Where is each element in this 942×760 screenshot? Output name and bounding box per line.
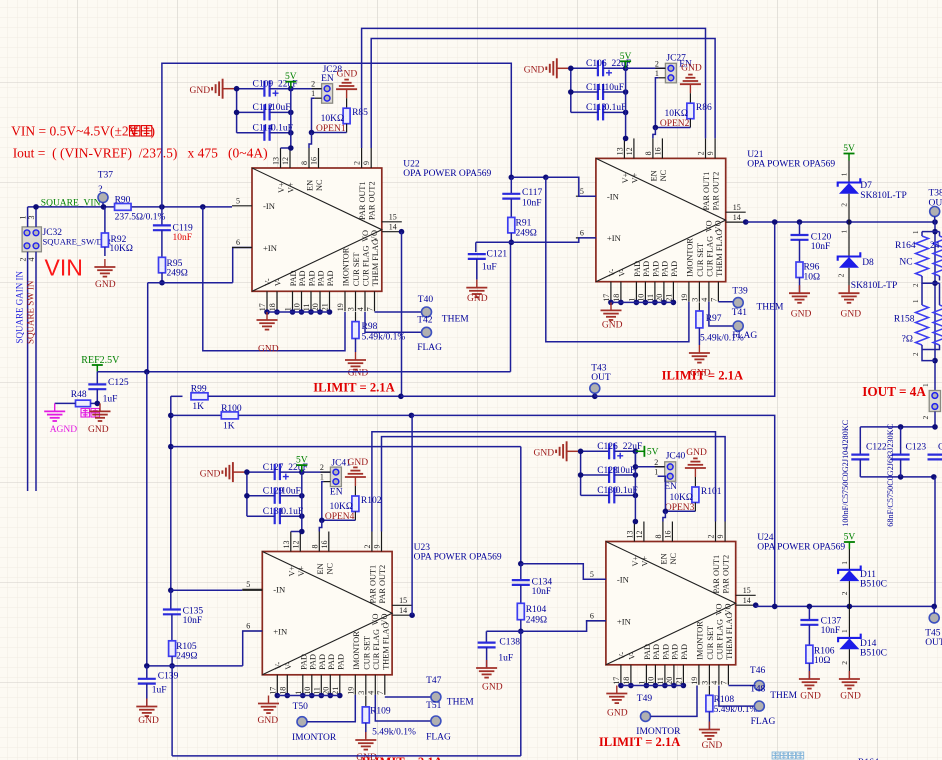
svg-text:CUR FLAG: CUR FLAG [372,629,381,670]
svg-text:15: 15 [733,203,741,212]
annotation shortjump [81,409,90,418]
svg-text:4: 4 [27,258,36,262]
svg-text:237.5Ω/0.1%: 237.5Ω/0.1% [115,213,166,223]
resistor R48 [55,390,100,407]
ground below U23 pads [258,696,280,727]
svg-text:-IN: -IN [607,191,620,201]
svg-text:C134: C134 [532,578,553,588]
svg-text:R109: R109 [370,707,391,717]
svg-text:OPA POWER OPA569: OPA POWER OPA569 [414,553,502,563]
svg-text:14: 14 [389,223,397,232]
svg-text:1uF: 1uF [482,263,497,273]
svg-text:V+: V+ [277,182,286,193]
designator U21 [747,150,835,170]
svg-text:-IN: -IN [617,575,630,585]
OPEN3 label [665,503,695,513]
test point T45 OUT [925,606,942,648]
svg-text:OUT: OUT [925,638,942,648]
svg-text:R100: R100 [221,404,242,414]
svg-text:2: 2 [320,463,324,472]
svg-text:+IN: +IN [273,626,288,636]
svg-text:GND: GND [524,66,545,76]
svg-text:R158: R158 [894,315,915,325]
ground below R106 [799,671,821,702]
test point T38 OUT [929,189,942,223]
svg-text:2: 2 [837,273,846,277]
svg-text:IMONTOR: IMONTOR [342,247,351,286]
svg-text:R105: R105 [176,642,197,652]
svg-text:5V: 5V [620,52,632,62]
svg-text:T46: T46 [750,666,766,676]
svg-text:8: 8 [310,545,319,549]
svg-text:U21: U21 [747,150,764,160]
svg-text:NC: NC [899,258,912,268]
op-amp U23 OPA POWER OPA569 [242,532,412,695]
svg-text:VO: VO [361,230,370,242]
resistor R108 5.49k [706,686,758,716]
svg-text:19: 19 [690,677,699,685]
test point T39 THEM [718,287,784,313]
svg-text:PAR OUT1: PAR OUT1 [712,555,721,594]
svg-text:GND: GND [791,310,812,320]
REF2.5V rail [97,242,510,666]
svg-text:IOUT = 4A: IOUT = 4A [862,384,926,399]
wire EN net [653,78,691,139]
svg-text:T49: T49 [637,694,653,704]
connector JC27 [665,53,686,83]
svg-text:12: 12 [281,157,290,165]
svg-text:GND: GND [841,310,862,320]
svg-text:7: 7 [366,307,375,311]
svg-text:V-: V- [274,278,283,286]
svg-text:V+: V+ [630,172,639,183]
svg-text:SK810L-TP: SK810L-TP [851,281,897,291]
svg-text:?Ω: ?Ω [902,335,913,345]
svg-text:R104: R104 [526,605,547,615]
wire [571,67,598,69]
svg-text:1: 1 [320,473,324,482]
svg-text:-IN: -IN [273,585,286,595]
svg-text:THEM: THEM [757,303,784,313]
U22 pin2/9 bus to U21 [362,28,715,148]
svg-text:GND: GND [337,70,358,80]
svg-text:ILIMIT = 2.1A: ILIMIT = 2.1A [662,369,743,383]
op-amp U21 OPA POWER OPA569 [576,138,746,301]
svg-text:8: 8 [300,161,309,165]
svg-text:8: 8 [654,535,663,539]
diode D7 SK810L-TP [838,161,907,223]
U21 output rail [743,219,938,225]
wire up to U21 bus [162,63,511,207]
resistor R92 10K [101,207,133,256]
pin 2 [626,59,666,68]
svg-text:R96: R96 [804,263,820,273]
svg-text:2: 2 [353,161,362,165]
AGND ground [44,403,77,435]
svg-text:2: 2 [840,591,849,595]
wire -IN U22 to pin5 [200,204,345,351]
resistor R99 1K [171,384,401,412]
wire [270,88,291,90]
diode D8 SK810L-TP [837,222,898,293]
svg-text:PAD: PAD [299,654,308,670]
svg-text:1: 1 [840,172,849,176]
svg-text:NC: NC [325,563,334,575]
connector JC40 [665,452,686,482]
svg-text:C139: C139 [158,672,179,682]
svg-text:GND: GND [348,369,369,379]
svg-text:FLAG: FLAG [732,331,757,341]
svg-text:R48: R48 [71,390,87,400]
svg-text:PAR OUT2: PAR OUT2 [368,181,377,220]
resistor R105 249 [169,614,198,666]
resistor R97 5.49k [696,302,744,343]
svg-text:5V: 5V [843,144,855,154]
svg-text:7: 7 [376,691,385,695]
svg-text:12: 12 [291,541,300,549]
svg-text:B510C: B510C [860,580,887,590]
svg-text:THEM FLAG: THEM FLAG [715,229,724,276]
wire [603,91,626,93]
EN label [321,74,334,84]
wire [922,350,935,361]
pin 2 [302,463,331,472]
svg-text:V+: V+ [287,182,296,193]
svg-text:THEM FLAG: THEM FLAG [381,623,390,670]
svg-text:2: 2 [363,545,372,549]
svg-text:T39: T39 [732,287,748,297]
svg-text:GND: GND [88,425,109,435]
svg-text:GND: GND [681,64,702,74]
test point IMONTOR U23 [292,695,355,743]
power GND port (earth) left of C106 [524,58,571,78]
svg-text:T40: T40 [418,295,434,305]
designator U22 [403,160,491,180]
svg-text:PAD: PAD [289,270,298,286]
connector JC32 [22,227,111,252]
annotation VIN range [11,124,155,139]
svg-text:U23: U23 [414,543,431,553]
power GND port (earth) left of C126 [534,441,581,461]
svg-text:NC: NC [315,179,324,191]
wire [280,515,302,517]
svg-text:5: 5 [246,580,250,589]
svg-text:CUR FLAG: CUR FLAG [715,619,724,660]
svg-text:2: 2 [840,203,849,207]
svg-text:10KΩ: 10KΩ [321,114,344,124]
resistor R104 249 [517,585,547,631]
svg-text:PAD: PAD [660,261,669,277]
svg-text:C119: C119 [173,223,193,233]
capacitor C137 10nF [800,606,841,636]
svg-text:7: 7 [719,681,728,685]
svg-text:GND: GND [138,716,159,726]
svg-text:V-: V- [607,268,616,276]
svg-text:1: 1 [921,383,930,387]
svg-text:9: 9 [362,161,371,165]
svg-text:16: 16 [663,531,672,539]
bottom REF rail [172,755,521,757]
svg-text:SK810L-TP: SK810L-TP [860,191,906,201]
power port 5V above D7 [843,144,855,161]
svg-text:THEM FLAG: THEM FLAG [371,239,380,286]
svg-text:GND: GND [800,692,821,702]
capacitor C126 22uF [597,442,642,459]
svg-text:EN: EN [306,180,315,191]
wire [237,132,265,134]
svg-text:5: 5 [580,187,584,196]
U24 +IN node [486,621,606,756]
capacitor C130 0.1uF [597,486,637,503]
capacitor C106 22uF [586,59,631,76]
U21 V- ground bus [608,300,676,306]
svg-text:6: 6 [236,238,240,247]
REF2.5V power port [81,355,120,372]
svg-text:10nF: 10nF [522,199,542,209]
capacitor C139 1uF [138,666,179,706]
wire [270,111,291,113]
svg-text:PAD: PAD [308,270,317,286]
svg-text:R108: R108 [714,695,735,705]
svg-text:GND: GND [258,345,279,355]
resistor R101 10K [669,487,721,503]
svg-text:249Ω: 249Ω [526,616,547,626]
svg-text:13: 13 [625,531,634,539]
cap bank rails [860,424,938,606]
svg-text:1: 1 [655,69,659,78]
svg-text:9: 9 [716,535,725,539]
svg-text:T48: T48 [750,685,766,695]
svg-text:EN: EN [321,74,334,84]
svg-text:C122: C122 [866,443,887,453]
svg-text:12: 12 [625,147,634,155]
svg-text:EN: EN [649,170,658,181]
svg-text:13: 13 [615,147,624,155]
capacitor C138 1uF [478,631,521,667]
svg-text:PAD: PAD [642,261,651,277]
JC32 pin 2 wire [19,252,28,491]
wire [270,132,291,134]
svg-text:9: 9 [373,545,382,549]
capacitor C122 100nF [851,427,887,477]
svg-text:4: 4 [356,307,365,311]
svg-text:V+: V+ [287,566,296,577]
svg-text:5.49k/0.1%: 5.49k/0.1% [372,728,416,738]
EN label [679,60,692,70]
svg-text:249Ω: 249Ω [176,652,197,662]
svg-text:5V: 5V [647,448,659,458]
svg-text:C117: C117 [522,188,542,198]
svg-text:4: 4 [700,298,709,302]
svg-text:100nF/C5750C0G2J104J280KC: 100nF/C5750C0G2J104J280KC [841,419,850,526]
svg-text:1: 1 [311,89,315,98]
ground below R109 [355,723,377,760]
svg-text:C138: C138 [499,638,520,648]
left feedback vertical [168,396,174,590]
capacitor C125 1uF [88,372,129,405]
power port 5V (sideways) [635,446,658,458]
svg-text:1uF: 1uF [152,686,167,696]
svg-text:16: 16 [310,157,319,165]
svg-text:PAD: PAD [633,261,642,277]
capacitor C120 10nF [791,222,832,252]
test point T43 OUT [590,363,611,396]
svg-text:6: 6 [590,612,594,621]
svg-text:2: 2 [707,535,716,539]
diode D11 B510C [838,549,887,606]
svg-text:+IN: +IN [617,616,632,626]
OPEN4 label [325,512,355,522]
pin 1 [655,69,666,78]
svg-text:2: 2 [912,283,920,287]
svg-text:14: 14 [399,606,407,615]
resistor twin right edge [930,232,942,281]
svg-text:PAR OUT2: PAR OUT2 [712,172,721,211]
connector JC41 [330,459,351,487]
wire [237,111,265,113]
svg-text:24: 24 [930,241,940,251]
svg-text:10nF: 10nF [532,587,552,597]
wire [581,494,610,496]
svg-text:CUR SET: CUR SET [352,252,361,286]
svg-text:PAD: PAD [661,644,670,660]
U23 pin2/9 bus to U24 [372,432,725,532]
EN label [664,482,677,492]
svg-text:T43: T43 [591,363,607,373]
ground below U22 pads [257,312,279,355]
svg-text:1K: 1K [192,402,204,412]
wire [614,494,635,496]
U21 IMONITOR wire [546,177,689,341]
svg-text:V+: V+ [297,566,306,577]
wire [280,495,302,497]
svg-text:OPA POWER OPA569: OPA POWER OPA569 [757,543,845,553]
svg-text:2: 2 [655,59,659,68]
junction dots [568,66,628,116]
svg-text:2: 2 [654,458,658,467]
svg-text:AGND: AGND [50,425,78,435]
U23 +IN node [144,631,262,756]
svg-text:D11: D11 [860,570,876,580]
svg-text:JC40: JC40 [666,452,686,462]
U22 output wire [399,229,405,396]
capacitor C128 10uF [597,466,635,483]
svg-text:GND: GND [200,469,221,479]
annotation Iout formula [13,145,268,160]
svg-text:GND: GND [602,321,623,331]
GND above R102 [345,458,368,496]
ground below R92 [94,259,115,290]
ground below U24 pads [606,686,627,719]
svg-text:EN: EN [330,488,343,498]
svg-text:PAD: PAD [308,654,317,670]
svg-text:3: 3 [357,691,366,695]
svg-text:10KΩ: 10KΩ [669,493,692,503]
svg-text:6: 6 [246,622,250,631]
svg-text:10nF: 10nF [173,233,193,243]
GND above R85 [336,70,357,109]
svg-text:16: 16 [653,147,662,155]
GND above R101 [685,448,707,487]
svg-text:R95: R95 [167,259,183,269]
capacitor right edge [928,443,942,460]
svg-text:R97: R97 [706,314,722,324]
resistor R96 10 [796,240,820,293]
designator U24 [757,533,845,553]
svg-text:2: 2 [840,661,849,665]
svg-text:IMONTOR: IMONTOR [292,733,337,743]
svg-text:THEM: THEM [447,698,474,708]
svg-text:NC: NC [669,553,678,565]
svg-text:10nF: 10nF [183,616,203,626]
svg-text:PAD: PAD [651,261,660,277]
svg-text:GND: GND [348,458,369,468]
connector JC28 [322,65,343,103]
ground below C121 [466,280,487,304]
U24 output rail [753,602,937,609]
svg-text:Iout = ( (VIN-VREF) /237.5): Iout = ( (VIN-VREF) /237.5) x 475 (0~4A) [13,145,268,160]
svg-text:GND: GND [702,741,723,751]
svg-text:IMONTOR: IMONTOR [352,631,361,670]
svg-text:PAR OUT1: PAR OUT1 [368,565,377,604]
svg-text:3: 3 [700,681,709,685]
wire [247,515,275,517]
test point IMONTOR U24 [636,686,697,738]
svg-text:1: 1 [912,230,920,234]
svg-text:GND: GND [190,86,211,96]
capacitor C117 10nF [502,177,542,208]
test point T48 FLAG [719,685,776,728]
power port 5V [296,456,308,473]
svg-text:68nF/C5750C0G2J683J230KC: 68nF/C5750C0G2J683J230KC [886,423,895,526]
capacitor C129 10uF [263,487,301,504]
svg-text:1uF: 1uF [498,654,513,664]
power GND port (earth) left of C109 [190,79,237,99]
U21 -IN network wire [509,175,596,197]
resistor R106 10 [806,625,835,679]
svg-text:14: 14 [733,213,741,222]
svg-text:19: 19 [680,294,689,302]
wire [236,89,238,133]
capacitor C127 22uF [263,463,308,480]
resistor R102 10K [329,496,381,512]
svg-text:SQUARE SW IN: SQUARE SW IN [26,280,36,344]
OPEN1 label [316,124,346,134]
svg-text:THEM: THEM [442,315,469,325]
svg-text:PAR OUT1: PAR OUT1 [358,181,367,220]
wire [280,471,302,473]
svg-text:19: 19 [336,303,345,311]
svg-text:PAD: PAD [670,644,679,660]
svg-text:C135: C135 [183,607,204,617]
svg-text:R164: R164 [895,241,916,251]
power port 5V [285,72,297,89]
svg-text:CUR FLAG: CUR FLAG [362,245,371,286]
svg-text:U22: U22 [403,160,420,170]
resistor R85 10K [321,108,369,124]
resistor R100 1K [171,404,412,432]
pin 1 [320,473,331,482]
designator U23 [414,543,502,563]
svg-text:IMONTOR: IMONTOR [695,621,704,660]
svg-text:R90: R90 [115,196,131,206]
op-amp U24 OPA POWER OPA569 [586,522,756,685]
wire [581,450,610,452]
junction dots [244,469,305,519]
svg-text:249Ω: 249Ω [167,268,188,278]
pin 1 [654,467,665,476]
svg-text:T41: T41 [732,308,748,318]
